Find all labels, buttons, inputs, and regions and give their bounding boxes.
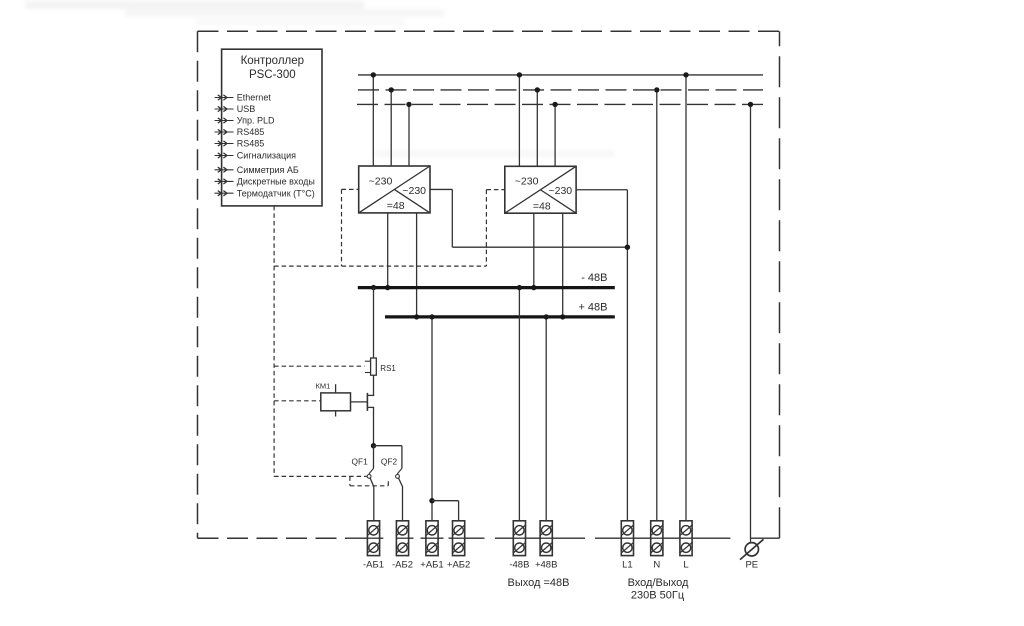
svg-text:+АБ1: +АБ1 (420, 560, 443, 571)
svg-text:~230: ~230 (515, 176, 539, 188)
svg-text:USB: USB (237, 104, 256, 114)
svg-text:PE: PE (745, 560, 758, 571)
svg-text:QF2: QF2 (381, 457, 398, 467)
svg-text:~230: ~230 (402, 185, 426, 197)
svg-text:-48В: -48В (509, 560, 529, 571)
svg-text:RS485: RS485 (237, 127, 265, 137)
svg-text:Симметрия АБ: Симметрия АБ (237, 165, 299, 175)
svg-text:- 48В: - 48В (581, 272, 607, 284)
svg-text:=48: =48 (387, 200, 405, 212)
svg-text:PSC-300: PSC-300 (249, 69, 296, 81)
svg-text:Ethernet: Ethernet (237, 93, 272, 103)
svg-text:-АБ2: -АБ2 (392, 560, 413, 571)
svg-text:L: L (683, 560, 688, 571)
svg-text:~230: ~230 (548, 185, 572, 197)
svg-text:Сигнализация: Сигнализация (237, 151, 296, 161)
svg-text:+48В: +48В (535, 560, 557, 571)
svg-text:QF1: QF1 (352, 457, 369, 467)
svg-text:L1: L1 (622, 560, 633, 571)
svg-text:Дискретные входы: Дискретные входы (237, 177, 315, 187)
svg-text:Вход/Выход: Вход/Выход (628, 577, 689, 589)
svg-text:КМ1: КМ1 (316, 382, 331, 391)
svg-text:Выход =48В: Выход =48В (508, 577, 570, 589)
svg-text:RS1: RS1 (380, 364, 396, 373)
svg-text:RS485: RS485 (237, 139, 265, 149)
svg-text:Термодатчик (Т°С): Термодатчик (Т°С) (237, 188, 315, 198)
svg-text:Упр. PLD: Упр. PLD (237, 116, 275, 126)
svg-text:-АБ1: -АБ1 (363, 560, 384, 571)
svg-text:~230: ~230 (369, 175, 393, 187)
svg-text:Контроллер: Контроллер (241, 55, 304, 67)
svg-text:+ 48В: + 48В (578, 302, 607, 314)
svg-text:+АБ2: +АБ2 (447, 560, 470, 571)
svg-text:230В 50Гц: 230В 50Гц (631, 590, 685, 602)
svg-text:N: N (653, 560, 660, 571)
svg-text:=48: =48 (533, 201, 551, 213)
